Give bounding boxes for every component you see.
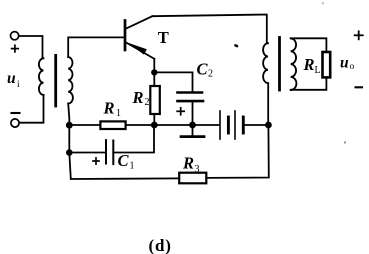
resistor R1 [100, 121, 125, 129]
resistor RL [323, 52, 331, 77]
transistor T collector line [126, 16, 153, 29]
wire bottom rail right segment [206, 125, 268, 178]
wire bottom-left terminal to transformer primary [19, 95, 43, 123]
node D (right bus) [265, 122, 272, 129]
battery plate short 2 [242, 117, 245, 133]
svg-text:L: L [315, 65, 321, 76]
label + (input) [12, 45, 19, 52]
wire RL bottom to T2 secondary bottom [291, 77, 327, 89]
capacitor C2 plate bottom [178, 100, 204, 103]
transformer T2 primary winding [263, 43, 268, 83]
transformer T1 secondary winding [68, 57, 73, 104]
svg-text:T: T [158, 28, 169, 47]
svg-text:R: R [182, 154, 194, 173]
label T [158, 28, 169, 47]
label u_o [340, 55, 355, 73]
main bus wire left segment [69, 124, 100, 126]
capacitor C2 plate top [178, 91, 203, 94]
ground bar [181, 135, 204, 138]
wire R2 bottom to bus [153, 114, 155, 125]
label - (output) [356, 86, 363, 88]
label - (input) [12, 112, 20, 114]
label C2 [197, 60, 214, 80]
label + (output) [355, 31, 363, 39]
svg-text:R: R [132, 88, 144, 107]
label R1 [103, 99, 122, 120]
label u_i [7, 70, 20, 90]
svg-text:R: R [303, 55, 315, 74]
label + (C1 polarity) [93, 158, 99, 164]
capacitor C1 plate right [112, 141, 114, 165]
svg-text:C: C [197, 60, 209, 79]
capacitor C1 plate left [105, 140, 107, 163]
svg-text:i: i [17, 80, 20, 90]
transformer T1 core [54, 55, 57, 106]
svg-text:2: 2 [208, 69, 213, 80]
transformer T1 primary winding [39, 58, 44, 95]
battery plate short 1 [227, 117, 230, 133]
wire C1 branch left [69, 152, 106, 154]
svg-text:1: 1 [130, 161, 135, 172]
stray speck [234, 44, 239, 48]
battery plate long 1 [219, 111, 221, 139]
wire C2 bottom to bus [192, 101, 194, 125]
label RL [303, 55, 321, 76]
node C (C2 bottom) [189, 122, 196, 129]
caption (d) [149, 236, 172, 254]
label R2 [132, 88, 150, 108]
svg-text:3: 3 [195, 164, 200, 175]
input terminal - (open circle) [11, 119, 19, 127]
svg-text:C: C [118, 151, 130, 170]
transistor T emitter line [126, 42, 155, 59]
wire battery to right node [243, 124, 268, 126]
ground stub [192, 125, 194, 135]
transistor T base bar [124, 21, 127, 51]
wire T1 secondary bottom to node A [68, 104, 69, 126]
svg-text:o: o [350, 62, 355, 72]
transistor T emitter arrow [128, 43, 147, 55]
battery plate long 2 [234, 111, 236, 139]
node A (bus left) [66, 122, 73, 129]
input terminal + (open circle) [11, 32, 19, 40]
transformer T2 core [278, 38, 281, 91]
wire T1 secondary top to transistor base [68, 37, 124, 57]
node B (R2 bottom) [151, 122, 158, 129]
label C1 [118, 151, 135, 172]
svg-text:u: u [340, 55, 349, 72]
wire C1 branch right up to node B [113, 125, 154, 153]
wire T2 secondary top to RL [291, 38, 327, 52]
label + (C2 polarity) [177, 108, 184, 115]
transformer T2 secondary winding [291, 38, 297, 90]
node emitter junction [151, 69, 157, 75]
svg-text:2: 2 [145, 97, 150, 108]
svg-text:1: 1 [116, 108, 121, 119]
svg-text:u: u [7, 70, 16, 87]
svg-text:R: R [103, 99, 115, 118]
wire emitter node to C2 [154, 72, 192, 91]
svg-text:(d): (d) [149, 236, 172, 254]
node E (C1 branch left) [66, 149, 73, 156]
wire right node up to transformer T2 primary [267, 83, 269, 125]
wire top-left terminal to transformer primary [19, 36, 43, 58]
wire top rail (collector to output transformer) [152, 15, 266, 44]
resistor R2 [150, 86, 160, 114]
resistor R3 [179, 173, 206, 184]
wire left vertical down to bottom rail [69, 153, 179, 180]
faint speck [344, 141, 346, 143]
main bus wire middle segment [126, 124, 220, 126]
wire emitter down to node [153, 59, 155, 86]
wire node A to C1 branch [68, 125, 70, 153]
label R3 [182, 154, 200, 176]
